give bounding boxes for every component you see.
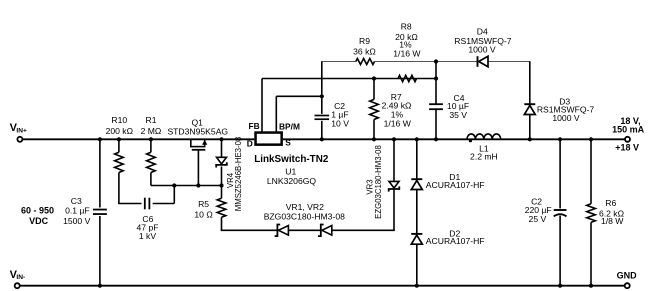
diode D2 (411, 233, 422, 235)
node rail / C2 bypass (320, 137, 324, 141)
svg-text:R1: R1 (146, 115, 157, 125)
node bottom rail / C2 output (558, 284, 562, 288)
input terminal V_IN+ (17, 137, 22, 142)
IC U1 LinkSwitch-TN2 (256, 133, 282, 145)
svg-text:VDC: VDC (29, 216, 49, 226)
svg-text:EZG03C180-HM3-08: EZG03C180-HM3-08 (374, 145, 383, 219)
capacitor C3 (99, 139, 101, 207)
svg-text:1/16 W: 1/16 W (393, 48, 421, 58)
svg-text:25 V: 25 V (529, 214, 547, 224)
svg-text:ACURA107-HF: ACURA107-HF (426, 180, 485, 190)
svg-text:35 V: 35 V (449, 110, 467, 120)
svg-text:200 kΩ: 200 kΩ (106, 126, 134, 136)
wire bottom rail (20, 285, 625, 287)
svg-text:GND: GND (617, 270, 638, 280)
svg-text:R6: R6 (605, 198, 616, 208)
zener diode VR2 (318, 225, 324, 237)
svg-text:1/16 W: 1/16 W (384, 119, 412, 129)
node bottom rail / C3 (98, 284, 102, 288)
svg-text:S: S (285, 138, 291, 148)
svg-text:R8: R8 (401, 22, 412, 32)
resistor R1 (150, 139, 152, 152)
node gate line / VR4-R5 (219, 183, 223, 187)
svg-text:0.1 µF: 0.1 µF (65, 205, 90, 215)
svg-text:10 Ω: 10 Ω (194, 209, 213, 219)
wire VR line (221, 229, 278, 231)
wire output rail (283, 138, 625, 140)
svg-text:1/8 W: 1/8 W (601, 216, 624, 226)
node rail / C4 (434, 137, 438, 141)
node BP/M line / C2 bypass (320, 94, 324, 98)
resistor R5 (221, 186, 223, 199)
svg-text:LNK3206GQ: LNK3206GQ (267, 176, 317, 186)
resistor R6 (590, 139, 592, 204)
svg-text:IN+: IN+ (16, 127, 27, 134)
node rail / C2 output (558, 137, 562, 141)
node rail / R6 (589, 137, 593, 141)
diode D3 (529, 62, 531, 105)
svg-text:150 mA: 150 mA (612, 125, 645, 135)
ground terminal GND (625, 283, 630, 288)
wire C2 bypass top (321, 62, 323, 95)
wire feedback top line (321, 61, 356, 63)
svg-text:2.2 mH: 2.2 mH (470, 152, 498, 162)
capacitor C2 (output) (559, 139, 561, 208)
node gate line / C6 branch (172, 183, 176, 187)
node rail / VR4 (219, 137, 223, 141)
diode D1 (416, 139, 418, 179)
node bottom rail / R6 (589, 284, 593, 288)
node top line / C4 (434, 59, 438, 63)
svg-text:D4: D4 (477, 26, 488, 36)
node FB line / R7 (372, 76, 376, 80)
wire C6 branch (118, 203, 141, 205)
resistor R9 (356, 59, 375, 65)
node rail / D1 (415, 137, 419, 141)
zener diode VR4 (221, 139, 223, 157)
svg-text:U1: U1 (285, 166, 296, 176)
svg-text:60 - 950: 60 - 950 (21, 206, 54, 216)
svg-text:R5: R5 (198, 199, 209, 209)
node rail / R7 (372, 137, 376, 141)
svg-text:ACURA107-HF: ACURA107-HF (426, 236, 485, 246)
node rail / R10 (117, 137, 121, 141)
node rail / C3 (98, 137, 102, 141)
svg-text:MMSZ5246B-HE3-08: MMSZ5246B-HE3-08 (234, 137, 243, 212)
svg-text:10 V: 10 V (331, 119, 349, 129)
node FB line / C4 branch (434, 76, 438, 80)
svg-text:2 MΩ: 2 MΩ (141, 126, 162, 136)
resistor R8 (398, 75, 417, 81)
inductor L1 (467, 134, 501, 139)
U1 pin BP/M (275, 96, 277, 132)
svg-text:FB: FB (249, 121, 260, 131)
node gate line / Q1 gate (196, 183, 200, 187)
wire gate line (151, 185, 222, 187)
svg-text:BP/M: BP/M (279, 121, 300, 131)
diode D4 (477, 56, 479, 67)
svg-text:1000 V: 1000 V (552, 113, 580, 123)
svg-text:BZG03C180-HM3-08: BZG03C180-HM3-08 (264, 212, 345, 222)
wire D1-D2 (416, 190, 418, 234)
capacitor C6 (144, 198, 146, 210)
svg-text:1500 V: 1500 V (63, 216, 91, 226)
zener diode VR3 (393, 190, 395, 231)
node rail / R1 (149, 137, 153, 141)
svg-text:1000 V: 1000 V (468, 44, 496, 54)
wire input rail (23, 138, 255, 140)
output terminal +18V (625, 137, 630, 142)
node rail / VR3 (392, 137, 396, 141)
svg-text:+18 V: +18 V (615, 143, 639, 153)
node bottom rail / D2 (415, 284, 419, 288)
svg-text:D: D (247, 138, 253, 148)
svg-text:R10: R10 (111, 115, 127, 125)
svg-text:36 kΩ: 36 kΩ (353, 46, 376, 56)
wire BP/M line (276, 95, 322, 97)
svg-text:IN-: IN- (16, 274, 25, 281)
U1 pin FB (261, 79, 263, 133)
zener diode VR1 (275, 225, 281, 237)
capacitor C4 (435, 62, 437, 104)
svg-text:LinkSwitch-TN2: LinkSwitch-TN2 (254, 154, 329, 165)
resistor R10 (118, 139, 120, 152)
node rail / D3 (528, 137, 532, 141)
svg-text:STD3N95K5AG: STD3N95K5AG (167, 127, 228, 137)
resistor R7 (373, 79, 375, 100)
transistor Q1 (190, 139, 192, 146)
svg-text:1 kV: 1 kV (139, 231, 156, 241)
capacitor C2 (bypass) (321, 96, 323, 114)
wire FB line (262, 78, 436, 80)
input terminal V_IN- (15, 283, 20, 288)
svg-text:R9: R9 (359, 36, 370, 46)
